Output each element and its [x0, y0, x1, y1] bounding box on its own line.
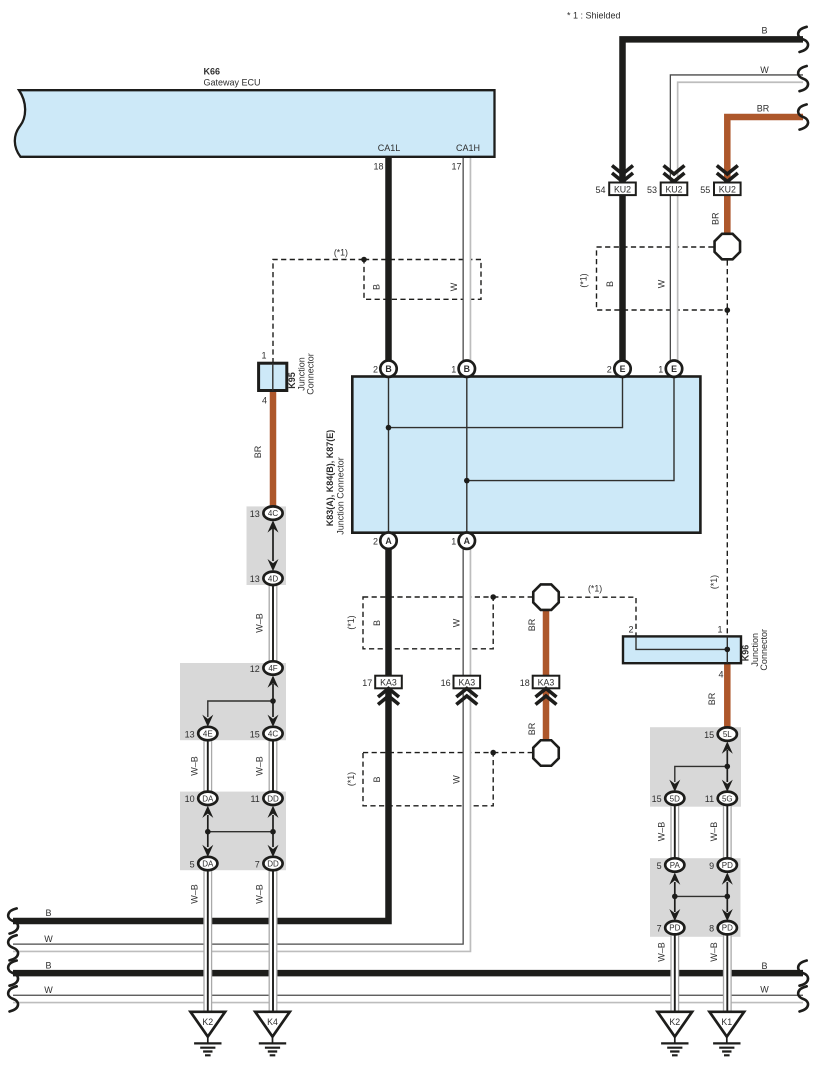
- wire W-B 4E to DA: [204, 740, 212, 792]
- shield dashed link octagon to junction: [726, 260, 728, 310]
- svg-text:5: 5: [657, 861, 662, 871]
- terminal circle A1: [459, 533, 475, 549]
- arrow up into PD 9: [722, 872, 733, 884]
- connector KU2 pin 55 box: [714, 183, 741, 196]
- terminal oval PD pin 7: [665, 921, 684, 934]
- ground K4 left: [255, 1012, 290, 1056]
- terminal oval 4C pin 13: [263, 506, 282, 519]
- svg-text:W: W: [452, 775, 462, 784]
- svg-text:1: 1: [451, 365, 456, 375]
- svg-text:(*1): (*1): [346, 615, 356, 629]
- junction connector box internal wire B2-A2: [388, 377, 390, 533]
- svg-text:15: 15: [652, 794, 662, 804]
- wire stem 5L branch: [726, 750, 728, 766]
- svg-text:2: 2: [373, 537, 378, 547]
- svg-text:DA: DA: [202, 794, 214, 803]
- connector KA3 pin 18 box: [533, 676, 560, 689]
- junction connector K95 box: [259, 363, 287, 390]
- arrow down into 4D: [268, 559, 279, 571]
- svg-text:PD: PD: [722, 861, 733, 870]
- wire W-B PD 8 to ground K1: [724, 934, 732, 1011]
- svg-text:CA1L: CA1L: [378, 143, 401, 153]
- svg-text:(*1): (*1): [334, 248, 348, 258]
- wire W-B PD 7 to ground K2 right: [671, 934, 679, 1011]
- wire B bus upper right: [623, 39, 804, 360]
- K96 internal node: [725, 647, 731, 653]
- svg-text:15: 15: [250, 729, 260, 739]
- svg-text:K4: K4: [267, 1017, 278, 1027]
- wire W CA1H from K66 to junction connector: [463, 157, 470, 361]
- svg-text:4C: 4C: [268, 509, 278, 518]
- internal node at B1 branch: [464, 478, 470, 484]
- svg-text:B: B: [45, 961, 51, 971]
- internal node at B2 branch: [386, 425, 392, 431]
- wire break squiggle left W2: [8, 986, 18, 1011]
- connector KA3 pin 17 chevron: [378, 689, 399, 705]
- svg-text:13: 13: [250, 509, 260, 519]
- svg-text:W: W: [449, 282, 459, 291]
- svg-text:B: B: [761, 26, 767, 36]
- shield dashed line to K95 pin 1: [273, 260, 364, 364]
- svg-text:B: B: [761, 961, 767, 971]
- svg-text:KA3: KA3: [538, 678, 555, 688]
- svg-text:PA: PA: [670, 861, 681, 870]
- terminal oval 4D pin 13: [263, 572, 282, 585]
- svg-text:W: W: [44, 934, 53, 944]
- svg-text:W–B: W–B: [190, 756, 200, 776]
- svg-text:13: 13: [185, 729, 195, 739]
- svg-text:Connector: Connector: [759, 629, 769, 671]
- K96 internal wire from pin 2 to node: [636, 636, 727, 649]
- svg-text:B: B: [45, 908, 51, 918]
- svg-text:4: 4: [262, 396, 267, 406]
- wire break squiggle right W top: [798, 66, 808, 91]
- wire B CA1L from K66 to junction connector: [385, 157, 392, 361]
- arrow up into 5L: [722, 741, 733, 753]
- svg-text:E: E: [671, 364, 677, 374]
- wire BR upper right: [727, 117, 803, 233]
- svg-text:K95: K95: [287, 372, 297, 389]
- terminal oval 5G pin 11: [718, 792, 737, 805]
- svg-text:(*1): (*1): [579, 273, 589, 287]
- svg-text:W–B: W–B: [255, 884, 265, 904]
- terminal oval PA pin 5: [665, 858, 684, 871]
- shield octagon mid upper: [533, 584, 559, 610]
- svg-text:B: B: [372, 284, 382, 290]
- svg-text:7: 7: [657, 924, 662, 934]
- arrow up into DA: [202, 806, 213, 818]
- arrow down into 5G: [722, 780, 733, 792]
- wire W-B DD 7 to ground K4: [269, 870, 277, 1012]
- terminal oval DD pin 7: [263, 857, 282, 870]
- arrow down into PD 8: [722, 909, 733, 921]
- svg-text:B: B: [372, 776, 382, 782]
- wire branch 4F to 4E: [208, 701, 273, 717]
- shield dashed box mid A (B/W wires above KA3): [363, 597, 493, 649]
- svg-text:4E: 4E: [203, 730, 213, 739]
- svg-text:5L: 5L: [723, 730, 732, 739]
- svg-text:BR: BR: [527, 618, 537, 631]
- wire stem to 4C 15: [272, 701, 274, 717]
- svg-text:DD: DD: [267, 794, 279, 803]
- svg-text:W–B: W–B: [709, 822, 719, 842]
- svg-text:DA: DA: [202, 860, 214, 869]
- svg-text:17: 17: [451, 162, 461, 172]
- svg-text:W–B: W–B: [657, 822, 667, 842]
- svg-text:BR: BR: [707, 692, 717, 705]
- svg-text:1: 1: [261, 351, 266, 361]
- svg-text:W–B: W–B: [657, 942, 667, 962]
- arrow up into 4C: [268, 520, 279, 532]
- arrow down into DA 5: [202, 845, 213, 857]
- wire break squiggle right B top: [798, 27, 808, 52]
- svg-text:B: B: [372, 620, 382, 626]
- wire BR octagon to KA3 18: [543, 611, 550, 688]
- wire W-B DA 5 to ground K2: [204, 870, 212, 1012]
- wire break squiggle left B2: [8, 961, 18, 986]
- svg-text:PD: PD: [722, 924, 733, 933]
- node DD link: [270, 829, 276, 835]
- node PA link: [672, 894, 678, 900]
- svg-text:PD: PD: [669, 924, 680, 933]
- arrow up into DD: [268, 806, 279, 818]
- shield dashed box upper right around B and W wires: [597, 247, 725, 310]
- svg-text:17: 17: [362, 678, 372, 688]
- ECU K66 Gateway ECU box: [15, 90, 495, 157]
- svg-text:KU2: KU2: [719, 184, 736, 194]
- shield octagon mid lower: [533, 740, 559, 766]
- ground K1 right: [710, 1012, 745, 1056]
- svg-text:B: B: [464, 364, 470, 374]
- svg-text:Gateway ECU: Gateway ECU: [204, 78, 261, 88]
- svg-text:1: 1: [717, 625, 722, 635]
- wire stem PD junction: [726, 882, 728, 912]
- svg-text:9: 9: [709, 861, 714, 871]
- svg-text:Connector: Connector: [306, 353, 316, 395]
- svg-text:KU2: KU2: [614, 184, 631, 194]
- shield dashed box mid B (B/W wires below KA3): [363, 753, 493, 806]
- svg-text:K83(A), K84(B), K87(E): K83(A), K84(B), K87(E): [325, 430, 335, 527]
- svg-text:B: B: [605, 281, 615, 287]
- arrow down into 5D: [669, 780, 680, 792]
- terminal circle E2: [614, 361, 630, 377]
- svg-text:5G: 5G: [722, 794, 733, 803]
- wire break squiggle left W1: [8, 935, 18, 960]
- terminal circle A2: [380, 533, 396, 549]
- svg-text:(*1): (*1): [588, 584, 602, 594]
- wire link DA-DD: [208, 831, 273, 833]
- wire stem DD junction: [272, 815, 274, 847]
- svg-text:10: 10: [185, 794, 195, 804]
- node at mid box A corner: [490, 594, 496, 600]
- terminal circle E1: [666, 361, 682, 377]
- wire stem to 5G: [726, 766, 728, 782]
- svg-text:DD: DD: [267, 860, 279, 869]
- wire W-B 4D to 4F: [269, 585, 277, 661]
- node on shield dashes upper right: [725, 307, 731, 313]
- wire stem 4F branch: [272, 684, 274, 701]
- wire branch 5L to 5D: [675, 766, 728, 782]
- wire B bus lower 2 full width: [13, 970, 803, 977]
- svg-text:* 1 : Shielded: * 1 : Shielded: [567, 11, 621, 21]
- connector KA3 pin 18 chevron: [536, 689, 557, 705]
- svg-text:2: 2: [628, 625, 633, 635]
- junction connector K83(A) K84(B) K87(E) box: [352, 377, 700, 533]
- terminal circle B1: [459, 361, 475, 377]
- svg-text:1: 1: [658, 365, 663, 375]
- wire W bus lower 2 full width: [13, 995, 803, 1002]
- junction connector box internal wire to E1: [467, 377, 674, 481]
- wire break squiggle right B2: [798, 961, 808, 986]
- node PD link: [725, 894, 731, 900]
- svg-text:18: 18: [520, 678, 530, 688]
- wire W-B 4C to DD: [269, 740, 277, 792]
- terminal circle B2: [380, 361, 396, 377]
- svg-text:1: 1: [451, 537, 456, 547]
- terminal oval 4F pin 12: [263, 661, 282, 674]
- arrow down into 4C 15: [268, 715, 279, 727]
- arrow down into PD 7: [669, 909, 680, 921]
- gray highlight box left 1 (4C/4D): [247, 506, 287, 585]
- svg-text:(*1): (*1): [346, 772, 356, 786]
- terminal oval PD pin 8: [718, 921, 737, 934]
- svg-text:18: 18: [373, 162, 383, 172]
- shield dash from node B to octagon: [493, 752, 532, 754]
- shield dash from node A to octagon: [493, 596, 532, 598]
- connector KU2 pin 53 box: [661, 183, 688, 196]
- svg-text:W: W: [760, 65, 769, 75]
- arrow down into 4E: [202, 715, 213, 727]
- svg-text:4F: 4F: [268, 664, 277, 673]
- svg-text:2: 2: [607, 365, 612, 375]
- svg-text:11: 11: [705, 794, 714, 804]
- wire BR octagon to KU2 55 continuation: [724, 195, 731, 233]
- svg-text:55: 55: [700, 185, 710, 195]
- connector KU2 pin 55 chevron: [717, 166, 738, 182]
- svg-text:4: 4: [718, 670, 723, 680]
- svg-text:4C: 4C: [268, 730, 278, 739]
- svg-text:(*1): (*1): [709, 575, 719, 589]
- connector KU2 pin 54 chevron: [612, 166, 633, 182]
- K95 internal wire pin1-pin4: [272, 363, 274, 390]
- svg-text:BR: BR: [711, 212, 721, 225]
- wire W bus upper right: [674, 79, 803, 361]
- svg-text:4D: 4D: [268, 574, 278, 583]
- shield octagon upper right: [715, 234, 741, 260]
- arrow up into PA: [669, 872, 680, 884]
- svg-text:54: 54: [595, 185, 605, 195]
- wire break squiggle left B1: [8, 908, 18, 933]
- svg-text:K2: K2: [202, 1017, 213, 1027]
- junction connector K96 box: [623, 636, 741, 663]
- terminal oval 4C pin 15: [263, 727, 282, 740]
- svg-text:15: 15: [704, 730, 714, 740]
- wire BR K96 pin 4 to 5L: [724, 663, 731, 727]
- svg-text:A: A: [464, 536, 471, 546]
- wire BR K95 to 4C: [270, 391, 277, 507]
- svg-text:5D: 5D: [670, 794, 680, 803]
- connector KA3 pin 17 box: [375, 676, 402, 689]
- ground K2 right: [658, 1012, 693, 1056]
- svg-text:W: W: [452, 618, 462, 627]
- svg-text:CA1H: CA1H: [456, 143, 480, 153]
- svg-text:K1: K1: [721, 1017, 732, 1027]
- wire W-B 5G to PD: [724, 805, 732, 858]
- wire break squiggle right BR top: [798, 104, 808, 129]
- gray highlight box right 1 (5L/5D/5G): [650, 727, 741, 807]
- svg-text:12: 12: [250, 664, 260, 674]
- node on shield dash at box corner: [361, 257, 367, 263]
- connector KA3 pin 16 box: [454, 676, 481, 689]
- svg-text:KA3: KA3: [380, 678, 397, 688]
- svg-text:W–B: W–B: [709, 942, 719, 962]
- junction connector box internal wire B1-A1: [466, 377, 468, 533]
- wire W-B 5D to PA: [671, 805, 679, 858]
- svg-text:KA3: KA3: [458, 678, 475, 688]
- svg-text:W–B: W–B: [255, 613, 265, 633]
- connector KU2 pin 53 chevron: [664, 166, 685, 182]
- junction connector box internal wire to E2: [389, 377, 623, 428]
- svg-text:K96: K96: [741, 645, 751, 662]
- terminal oval 4E pin 13: [198, 727, 217, 740]
- svg-text:8: 8: [709, 924, 714, 934]
- svg-text:11: 11: [250, 794, 259, 804]
- gray highlight box right 2 (PA/PD): [650, 858, 741, 937]
- wire stem 4C-4D: [272, 528, 274, 561]
- node DA link: [205, 829, 211, 835]
- svg-text:BR: BR: [527, 722, 537, 735]
- shield dashed box around CA1L/CA1H wires: [364, 260, 481, 300]
- svg-text:K2: K2: [669, 1017, 680, 1027]
- terminal oval DA pin 10: [198, 792, 217, 805]
- svg-text:A: A: [385, 536, 392, 546]
- shield dash octagon to K96 pin 2: [559, 597, 636, 636]
- svg-text:53: 53: [647, 185, 657, 195]
- terminal oval DD pin 11: [263, 792, 282, 805]
- connector KU2 pin 54 box: [609, 183, 636, 196]
- wire BR KA3 18 to octagon lower: [543, 688, 550, 739]
- arrow down into DD 7: [268, 845, 279, 857]
- svg-text:KU2: KU2: [665, 184, 682, 194]
- gray highlight box left 3 (DA/DD): [180, 792, 286, 871]
- wire stem DA junction: [207, 815, 209, 847]
- svg-text:BR: BR: [757, 104, 770, 114]
- svg-text:K66: K66: [204, 67, 221, 77]
- gray highlight box left 2 (4F/4E/4C): [180, 663, 286, 740]
- node at 4F branch: [270, 698, 276, 704]
- svg-text:7: 7: [255, 859, 260, 869]
- terminal oval PD pin 9: [718, 858, 737, 871]
- svg-text:5: 5: [190, 859, 195, 869]
- ground K2 left: [191, 1012, 226, 1056]
- svg-text:W: W: [44, 985, 53, 995]
- svg-text:W: W: [656, 279, 666, 288]
- svg-text:W–B: W–B: [190, 884, 200, 904]
- svg-text:B: B: [385, 364, 391, 374]
- svg-text:2: 2: [373, 365, 378, 375]
- svg-text:W–B: W–B: [255, 756, 265, 776]
- svg-text:Junction Connector: Junction Connector: [336, 457, 346, 535]
- svg-text:BR: BR: [253, 445, 263, 458]
- K96 internal wire pin1 to pin4: [726, 636, 728, 663]
- connector KA3 pin 16 chevron: [456, 689, 477, 705]
- terminal oval 5L pin 15: [718, 727, 737, 740]
- svg-text:W: W: [760, 984, 769, 994]
- wire break squiggle right W2: [798, 986, 808, 1011]
- node at mid box B corner: [490, 750, 496, 756]
- svg-text:16: 16: [441, 678, 451, 688]
- svg-text:E: E: [620, 364, 626, 374]
- wire W CA1H lower run to left bus: [13, 549, 467, 948]
- arrow up into 4F: [268, 675, 279, 687]
- terminal oval 5D pin 15: [665, 792, 684, 805]
- wire B CA1L lower run to left bus: [13, 549, 389, 921]
- shield dashed line from node to K96 pin 1: [726, 310, 728, 636]
- terminal oval DA pin 5: [198, 857, 217, 870]
- wire stem PA junction: [674, 882, 676, 912]
- wire link PA-PD: [675, 895, 728, 897]
- svg-text:13: 13: [250, 574, 260, 584]
- node at 5L branch: [725, 764, 731, 770]
